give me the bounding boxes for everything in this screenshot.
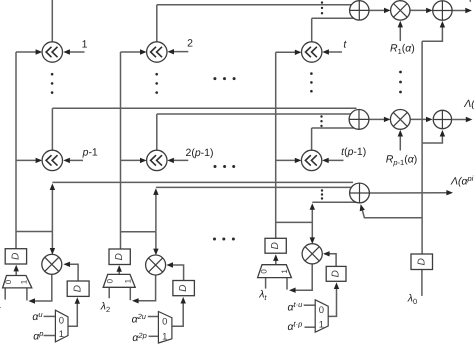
register D0 (D flip-flop) <box>411 254 433 270</box>
register D2' (D flip-flop) <box>173 281 195 296</box>
wire: down to multiplier X2 <box>155 232 157 251</box>
svg-text:1: 1 <box>162 331 167 342</box>
shifter S3 (cyclic left-shift) <box>302 42 322 62</box>
svg-text:D: D <box>114 253 125 260</box>
arrowhead into S3 <box>295 50 302 55</box>
wire: row-2 output <box>452 119 466 121</box>
wire: mux2 output to register D1' <box>118 270 120 274</box>
wire: register D2 to X1 <box>69 264 78 281</box>
arrowhead up into lambda2 bus <box>153 188 158 195</box>
wire: alpha^tu into mux V3 <box>304 304 316 306</box>
arrowhead into S2 <box>140 49 147 54</box>
arrowhead into S5 right <box>167 158 174 163</box>
wire: M1 to adder A4 <box>410 9 427 11</box>
wire: X2 feedback to mux <box>138 275 156 301</box>
wire: row-1 output <box>452 10 466 12</box>
wire: mux V1 output to register D2 <box>68 302 77 326</box>
wire: S5 output riser <box>156 114 158 150</box>
arrowhead into X3 right <box>323 251 330 256</box>
arrowhead into S1 right <box>63 49 70 54</box>
arrowhead into S4 <box>36 158 43 163</box>
svg-text:1: 1 <box>319 320 324 331</box>
ellipsis dots of row-1 adder inputs <box>321 1 323 14</box>
net row2-bus-3 into adder A2 <box>312 127 355 129</box>
wire: column-1 bus riser <box>51 189 53 232</box>
arrowhead into M1 bottom <box>398 21 403 28</box>
arrowhead into S6 <box>295 158 302 163</box>
wire: S6 output riser <box>311 128 313 150</box>
wire: column-3 register feed (vertical) <box>275 52 277 238</box>
net lambda0 column (long vertical) <box>421 41 423 254</box>
ellipsis dots below S1 <box>51 73 54 94</box>
arrowhead into A4 bottom <box>440 21 445 28</box>
wire: alpha^u into mux V1 <box>44 315 56 317</box>
svg-text:0: 0 <box>105 278 114 283</box>
mux MX1 (2-to-1, output on top) <box>3 276 32 288</box>
wire: lambda0 net branch to A5 <box>422 135 442 143</box>
arrowhead into S3 right <box>322 49 329 54</box>
wire: lambda-t input to mux3 <box>265 278 267 289</box>
shifter S1 (cyclic left-shift) <box>42 42 62 62</box>
net row2-bus-1 into adder A2 <box>52 107 356 109</box>
svg-text:Λ(α: Λ(α <box>463 98 474 110</box>
wire: lambda1 input to mux1 <box>4 288 6 300</box>
svg-text:0: 0 <box>260 269 269 274</box>
arrowhead into A5 <box>426 117 433 122</box>
wire: mux3 output to register D1'' <box>275 259 277 264</box>
wire: column-2 branch to multiplier/bus <box>121 231 156 233</box>
wire: row-3 output <box>369 192 447 194</box>
net row2-bus-2 into adder A2 <box>157 113 351 115</box>
shifter S4 (cyclic left-shift) <box>42 150 62 170</box>
wire: feed to shifter S4 <box>16 159 39 161</box>
arrowhead into X2 right <box>166 262 173 267</box>
svg-text:t(p-1): t(p-1) <box>341 146 366 158</box>
svg-text:D: D <box>73 285 84 292</box>
mux MX2 (2-to-1, output on top) <box>103 274 135 287</box>
wire: constant t(p-1) stub into S6 <box>327 159 344 161</box>
adder A1 (GF adder) <box>350 1 369 20</box>
wire: S4 output riser <box>51 108 53 150</box>
clipped label remnant at top-right corner <box>469 0 471 2</box>
svg-text:D: D <box>331 270 342 277</box>
register D1' (D flip-flop) <box>109 249 130 265</box>
register D1'' (D flip-flop) <box>265 238 286 253</box>
multiplier X3 (GF multiplier) <box>302 244 322 264</box>
multiplier M1 (GF multiplier) <box>391 1 410 20</box>
svg-text:D: D <box>178 284 189 291</box>
wire: column-3 bus riser <box>311 209 313 223</box>
adder A3 (GF adder) <box>350 183 370 203</box>
svg-text:1: 1 <box>59 329 64 340</box>
wire: A2 to multiplier M2 <box>369 118 385 120</box>
ellipsis dots between R1 and Rp-1 multiplier columns <box>399 71 402 94</box>
arrowhead into A5 bottom <box>440 130 445 137</box>
mux V2 (2-to-1 constant select) <box>158 312 172 344</box>
adder A5 (GF adder) <box>433 110 451 128</box>
net lambda2-bus to output adder A3 <box>156 186 352 188</box>
arrowhead into X1 right <box>63 262 70 267</box>
wire: lambda0 net branch to A3 <box>362 209 422 217</box>
svg-text:D: D <box>416 258 427 265</box>
arrowhead up into lambda1 bus <box>50 183 55 190</box>
net lambda-t-bus to output adder A3 <box>312 201 356 203</box>
adder A4 (GF adder) <box>433 1 452 20</box>
ellipsis dots of row-2 adder inputs <box>320 115 322 127</box>
svg-text:D: D <box>270 242 281 249</box>
wire: A1 to multiplier M1 <box>369 9 385 11</box>
wire: column-3 branch to multiplier/bus <box>276 221 313 223</box>
register D1 (D flip-flop) <box>5 249 26 264</box>
mux MX3 (2-to-1, output on top) <box>258 265 292 278</box>
wire: alpha^2u into mux V2 <box>148 316 159 318</box>
mux V3 (2-to-1 constant select) <box>315 300 328 332</box>
wire: down to multiplier X1 <box>51 232 53 251</box>
wire: register D2'' to X3 <box>329 254 337 267</box>
wire: alpha^tp into mux V3 <box>305 326 316 328</box>
svg-text:1: 1 <box>124 278 133 283</box>
wire: column-2 register feed (vertical) <box>120 52 122 249</box>
arrowhead into S4 right <box>63 158 70 163</box>
svg-text:2(p-1): 2(p-1) <box>185 147 213 159</box>
wire: column-2 bus riser <box>155 194 157 232</box>
wire: mux3 input-1 stub <box>286 278 288 290</box>
wire: register D2' to X2 <box>172 265 184 281</box>
register D2 (D flip-flop) <box>67 281 89 296</box>
shifter S6 (cyclic left-shift) <box>301 150 321 170</box>
ellipsis dots of row-3 adder inputs <box>321 189 323 199</box>
svg-text:p-1: p-1 <box>82 146 98 158</box>
wire: column-1 register feed (vertical) <box>15 52 17 249</box>
wire: alpha^2p into mux V2 <box>149 335 159 337</box>
wire: lambda0 net branch to A4 <box>422 27 442 41</box>
wire: constant 2 stub into S2 <box>172 51 188 53</box>
arrowhead up into lambda-t bus <box>310 203 315 210</box>
wire: lambda0 input below register <box>421 270 423 296</box>
net lambda1-bus to output adder A3 <box>52 181 353 183</box>
arrowhead feedback into mux3 select-1 <box>289 288 296 293</box>
wire: mux1 output to register D1 <box>15 270 17 276</box>
wire: mux2 input-1 stub <box>129 287 131 300</box>
svg-text:1: 1 <box>280 269 289 274</box>
wire: constant 1 stub into S1 <box>68 51 85 53</box>
wire: alpha^p into mux V1 <box>44 335 56 337</box>
arrowhead into D2 bottom <box>75 297 80 304</box>
wire: mux1 input-1 stub <box>26 288 28 300</box>
wire: R1(alpha) into M1 <box>399 27 401 41</box>
svg-text:1: 1 <box>20 279 29 284</box>
wire: X1 feedback to mux <box>34 274 52 301</box>
wire: mux V2 output to register D2' <box>172 302 183 326</box>
svg-text:0: 0 <box>59 315 64 326</box>
wire: constant 2(p-1) stub into S5 <box>172 159 188 161</box>
multiplier X2 (GF multiplier) <box>146 255 166 275</box>
multiplier M2 (GF multiplier) <box>390 110 410 130</box>
wire: column-1 branch to multiplier/bus <box>16 231 52 233</box>
arrowhead into A4 <box>426 8 433 13</box>
arrowhead row-3 output <box>446 190 453 195</box>
wire: M2 to adder A5 <box>410 118 427 120</box>
arrowhead into A3 bottom <box>360 204 365 211</box>
svg-text:0: 0 <box>162 317 167 328</box>
arrowhead into M1 <box>384 8 391 13</box>
wire: Rp-1(alpha) into M2 <box>399 136 401 151</box>
arrowhead feedback into mux1 select-1 <box>28 298 35 303</box>
shifter S5 (cyclic left-shift) <box>147 150 167 170</box>
arrowhead into X3 top <box>310 237 315 244</box>
arrowhead into D1 bottom <box>14 265 19 272</box>
arrowhead into D2'' bottom <box>334 282 339 289</box>
wire: feed to shifter S2 <box>121 51 144 53</box>
arrowhead into S6 right <box>322 158 329 163</box>
register D2'' (D flip-flop) <box>326 266 346 281</box>
arrowhead into S2 right <box>167 49 174 54</box>
ellipsis dots between bottom cells <box>213 238 235 241</box>
wire: constant t stub into S3 <box>327 51 342 53</box>
wire: S2 output riser <box>156 5 158 42</box>
arrowhead into M2 <box>384 117 391 122</box>
wire: S3 output riser <box>311 18 313 42</box>
ellipsis dots below S2 <box>155 73 158 94</box>
arrowhead feedback into mux2 select-1 <box>132 298 139 303</box>
wire: mux V3 output to register D2'' <box>328 288 336 317</box>
wire: feed to shifter S1 <box>16 51 39 53</box>
wire: feed to shifter S5 <box>121 159 144 161</box>
wire: lambda2 input to mux2 <box>108 287 110 298</box>
svg-text:2: 2 <box>187 37 193 49</box>
arrowhead into D2' bottom <box>181 297 186 304</box>
arrowhead into D1' bottom <box>117 265 122 272</box>
arrowhead into S5 <box>140 158 147 163</box>
arrowhead into X1 top <box>50 248 55 255</box>
adder A2 (GF adder) <box>349 110 369 130</box>
net row1-bus-2 into adder A1 <box>312 17 354 19</box>
arrowhead row-1 output <box>465 8 472 13</box>
multiplier X1 (GF multiplier) <box>42 254 62 274</box>
wire: X3 feedback to mux <box>295 264 313 290</box>
ellipsis dots between shifter columns row 2 <box>214 165 236 168</box>
arrowhead into X2 top <box>153 249 158 256</box>
ellipsis dots below S3 <box>310 72 313 92</box>
svg-text:0: 0 <box>319 305 324 316</box>
arrowhead row-2 output <box>466 117 473 122</box>
svg-text:0: 0 <box>4 279 13 284</box>
svg-text:R1(α): R1(α) <box>390 42 415 56</box>
wire: feed to shifter S3 <box>276 51 298 53</box>
wire: constant p-1 stub into S4 <box>68 159 83 161</box>
svg-text:1: 1 <box>82 39 88 51</box>
wire: S1 top connection (cropped at figure edge) <box>51 0 53 42</box>
arrowhead into M2 bottom <box>398 130 403 137</box>
mux V1 (2-to-1 constant select) <box>55 310 68 342</box>
wire: feed to shifter S6 <box>276 159 298 161</box>
wire: down to multiplier X3 <box>311 222 313 239</box>
net row1-bus-1 into adder A1 <box>157 4 352 6</box>
arrowhead into S1 <box>36 49 43 54</box>
arrowhead into D1'' bottom <box>273 254 278 261</box>
shifter S2 (cyclic left-shift) <box>147 42 167 62</box>
ellipsis dots between shifter columns row 1 <box>213 77 235 80</box>
svg-text:D: D <box>10 253 21 260</box>
